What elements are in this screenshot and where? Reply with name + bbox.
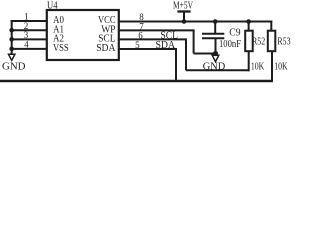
capacitor C9 bottom lead <box>215 38 217 55</box>
wire pin 7 WP horizontal <box>119 29 195 31</box>
wire pin 5 SDA horizontal <box>119 48 177 50</box>
ground symbol left (open arrow) <box>9 54 15 60</box>
wire pin 5 SDA vertical drop <box>175 49 177 81</box>
svg-text:R52: R52 <box>252 35 265 47</box>
resistor R53 bottom lead <box>271 51 273 81</box>
capacitor C9 bottom plate <box>202 37 224 39</box>
wire pin 1 <box>11 20 47 22</box>
wire left address bus to ground <box>11 20 13 54</box>
wire pin 7 WP vertical drop <box>193 30 195 53</box>
wire pin 8 VCC rail <box>119 21 272 23</box>
wire pin 3 <box>11 38 47 40</box>
wire pin 4 <box>11 48 47 50</box>
IC U4 body <box>47 10 119 60</box>
wire pin 7 WP run to ground node <box>194 53 216 55</box>
wire pin 2 <box>11 29 47 31</box>
resistor R52 body <box>245 31 253 52</box>
power symbol M+5V stub <box>183 12 185 22</box>
svg-text:100nF: 100nF <box>219 39 241 50</box>
wire pin 6 SCL horizontal <box>119 38 187 40</box>
junction dot bus pin 4 <box>9 47 14 52</box>
resistor R52 top lead <box>248 22 250 31</box>
wire pin 6 SCL vertical drop <box>185 39 187 70</box>
svg-text:GND: GND <box>2 62 26 73</box>
capacitor C9 top plate <box>202 33 224 35</box>
wire SCL bottom run to R52 <box>186 69 249 71</box>
capacitor C9 top lead <box>214 22 216 34</box>
svg-text:10K: 10K <box>251 62 265 73</box>
svg-text:10K: 10K <box>274 62 288 73</box>
junction dot R52 top <box>246 19 251 24</box>
svg-text:M+5V: M+5V <box>173 1 194 12</box>
svg-text:SDA: SDA <box>96 42 115 54</box>
wire VCC rail corner down to R53 <box>270 21 272 31</box>
svg-text:R53: R53 <box>277 35 291 47</box>
ground symbol middle (open arrow) <box>212 55 219 61</box>
svg-text:VSS: VSS <box>53 42 69 54</box>
wire R52 bottom lead <box>248 51 250 71</box>
svg-text:GND: GND <box>203 61 226 72</box>
junction dot bus pin 3 <box>9 37 14 42</box>
junction dot bus pin 2 <box>9 28 14 33</box>
resistor R53 body <box>268 31 276 52</box>
junction dot M+5V on rail <box>182 19 187 24</box>
junction dot C9 top <box>213 19 218 24</box>
wire SDA bottom bus to R53 <box>0 80 273 83</box>
svg-text:C9: C9 <box>229 27 241 39</box>
junction dot WP C9 ground node <box>213 51 218 56</box>
power symbol M+5V T-bar <box>178 10 191 12</box>
